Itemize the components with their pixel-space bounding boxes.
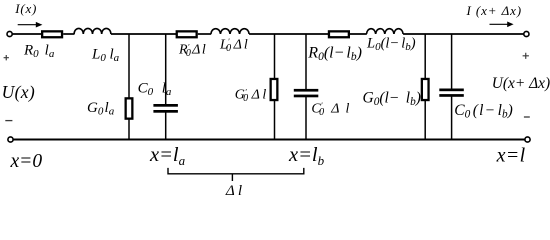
svg-text:x=la: x=la <box>149 144 186 168</box>
terminal bottom-right <box>525 137 530 142</box>
terminal top-left <box>7 31 12 36</box>
dimension bracket dl <box>168 168 304 181</box>
svg-text:Δl: Δl <box>225 182 242 199</box>
inductor L'0dl <box>211 29 249 34</box>
wire top segment D <box>198 33 211 35</box>
svg-text:R′0Δl: R′0Δl <box>178 42 206 59</box>
label plus right <box>523 53 529 59</box>
svg-text:x=lb: x=lb <box>288 144 325 168</box>
wire shunt branch C0la upper <box>165 34 167 105</box>
wire shunt branch C0la lower <box>165 112 167 139</box>
wire shunt branch C'0dl lower <box>305 97 307 140</box>
wire top segment A <box>12 33 41 35</box>
capacitor C'0dl <box>294 89 319 97</box>
label plus left <box>4 55 9 60</box>
wire top segment G <box>403 33 524 35</box>
svg-text:R0la: R0la <box>23 42 55 60</box>
wire shunt branch C0(l-lb) upper <box>451 34 453 89</box>
current arrow left <box>18 22 43 28</box>
wire shunt branch G'0dl <box>274 34 276 140</box>
label minus right <box>524 116 530 118</box>
wire top segment E <box>249 33 328 35</box>
svg-text:G0la: G0la <box>87 100 115 118</box>
svg-text:I (x+ Δx): I (x+ Δx) <box>466 3 523 18</box>
conductance G0la <box>126 98 133 118</box>
resistor R0la <box>42 31 62 37</box>
wire bottom <box>13 138 525 140</box>
resistor R'0dl <box>177 31 197 37</box>
wire top segment B <box>63 33 74 35</box>
resistor R0(l-lb) <box>329 31 349 37</box>
svg-text:x=l: x=l <box>496 144 526 166</box>
svg-text:C0(l−lb): C0(l−lb) <box>454 102 512 121</box>
wire shunt branch C'0dl upper <box>305 34 307 89</box>
wire top segment C <box>111 33 176 35</box>
label minus left <box>5 120 12 122</box>
wire shunt branch G0la <box>128 34 130 140</box>
svg-text:x=0: x=0 <box>10 151 43 172</box>
terminal top-right <box>524 31 529 36</box>
inductor L0(l-lb) <box>367 29 404 34</box>
svg-text:L0la: L0la <box>91 46 120 64</box>
svg-text:L0(l−lb): L0(l−lb) <box>366 36 416 54</box>
capacitor C0la <box>153 104 178 113</box>
wire shunt branch C0(l-lb) lower <box>451 97 453 140</box>
inductor L0la <box>74 28 111 34</box>
svg-text:L′0Δl: L′0Δl <box>219 37 248 54</box>
svg-text:C′0Δl: C′0Δl <box>311 101 349 118</box>
wire top segment F <box>350 33 367 35</box>
conductance G'0dl <box>271 79 278 100</box>
conductance G0(l-lb) <box>422 79 429 100</box>
svg-text:C0la: C0la <box>138 80 172 98</box>
svg-text:R0(l−lb): R0(l−lb) <box>307 44 362 63</box>
svg-text:I(x): I(x) <box>14 1 37 16</box>
capacitor C0(l-lb) <box>439 89 464 97</box>
svg-text:G′0Δl: G′0Δl <box>235 87 267 104</box>
current arrow right <box>490 22 514 28</box>
terminal bottom-left <box>8 137 13 142</box>
svg-text:G0(l−lb): G0(l−lb) <box>363 89 421 108</box>
wire shunt branch G0(l-lb) <box>424 34 426 140</box>
svg-text:U(x+ Δx): U(x+ Δx) <box>492 75 550 92</box>
svg-text:U(x): U(x) <box>2 82 35 102</box>
